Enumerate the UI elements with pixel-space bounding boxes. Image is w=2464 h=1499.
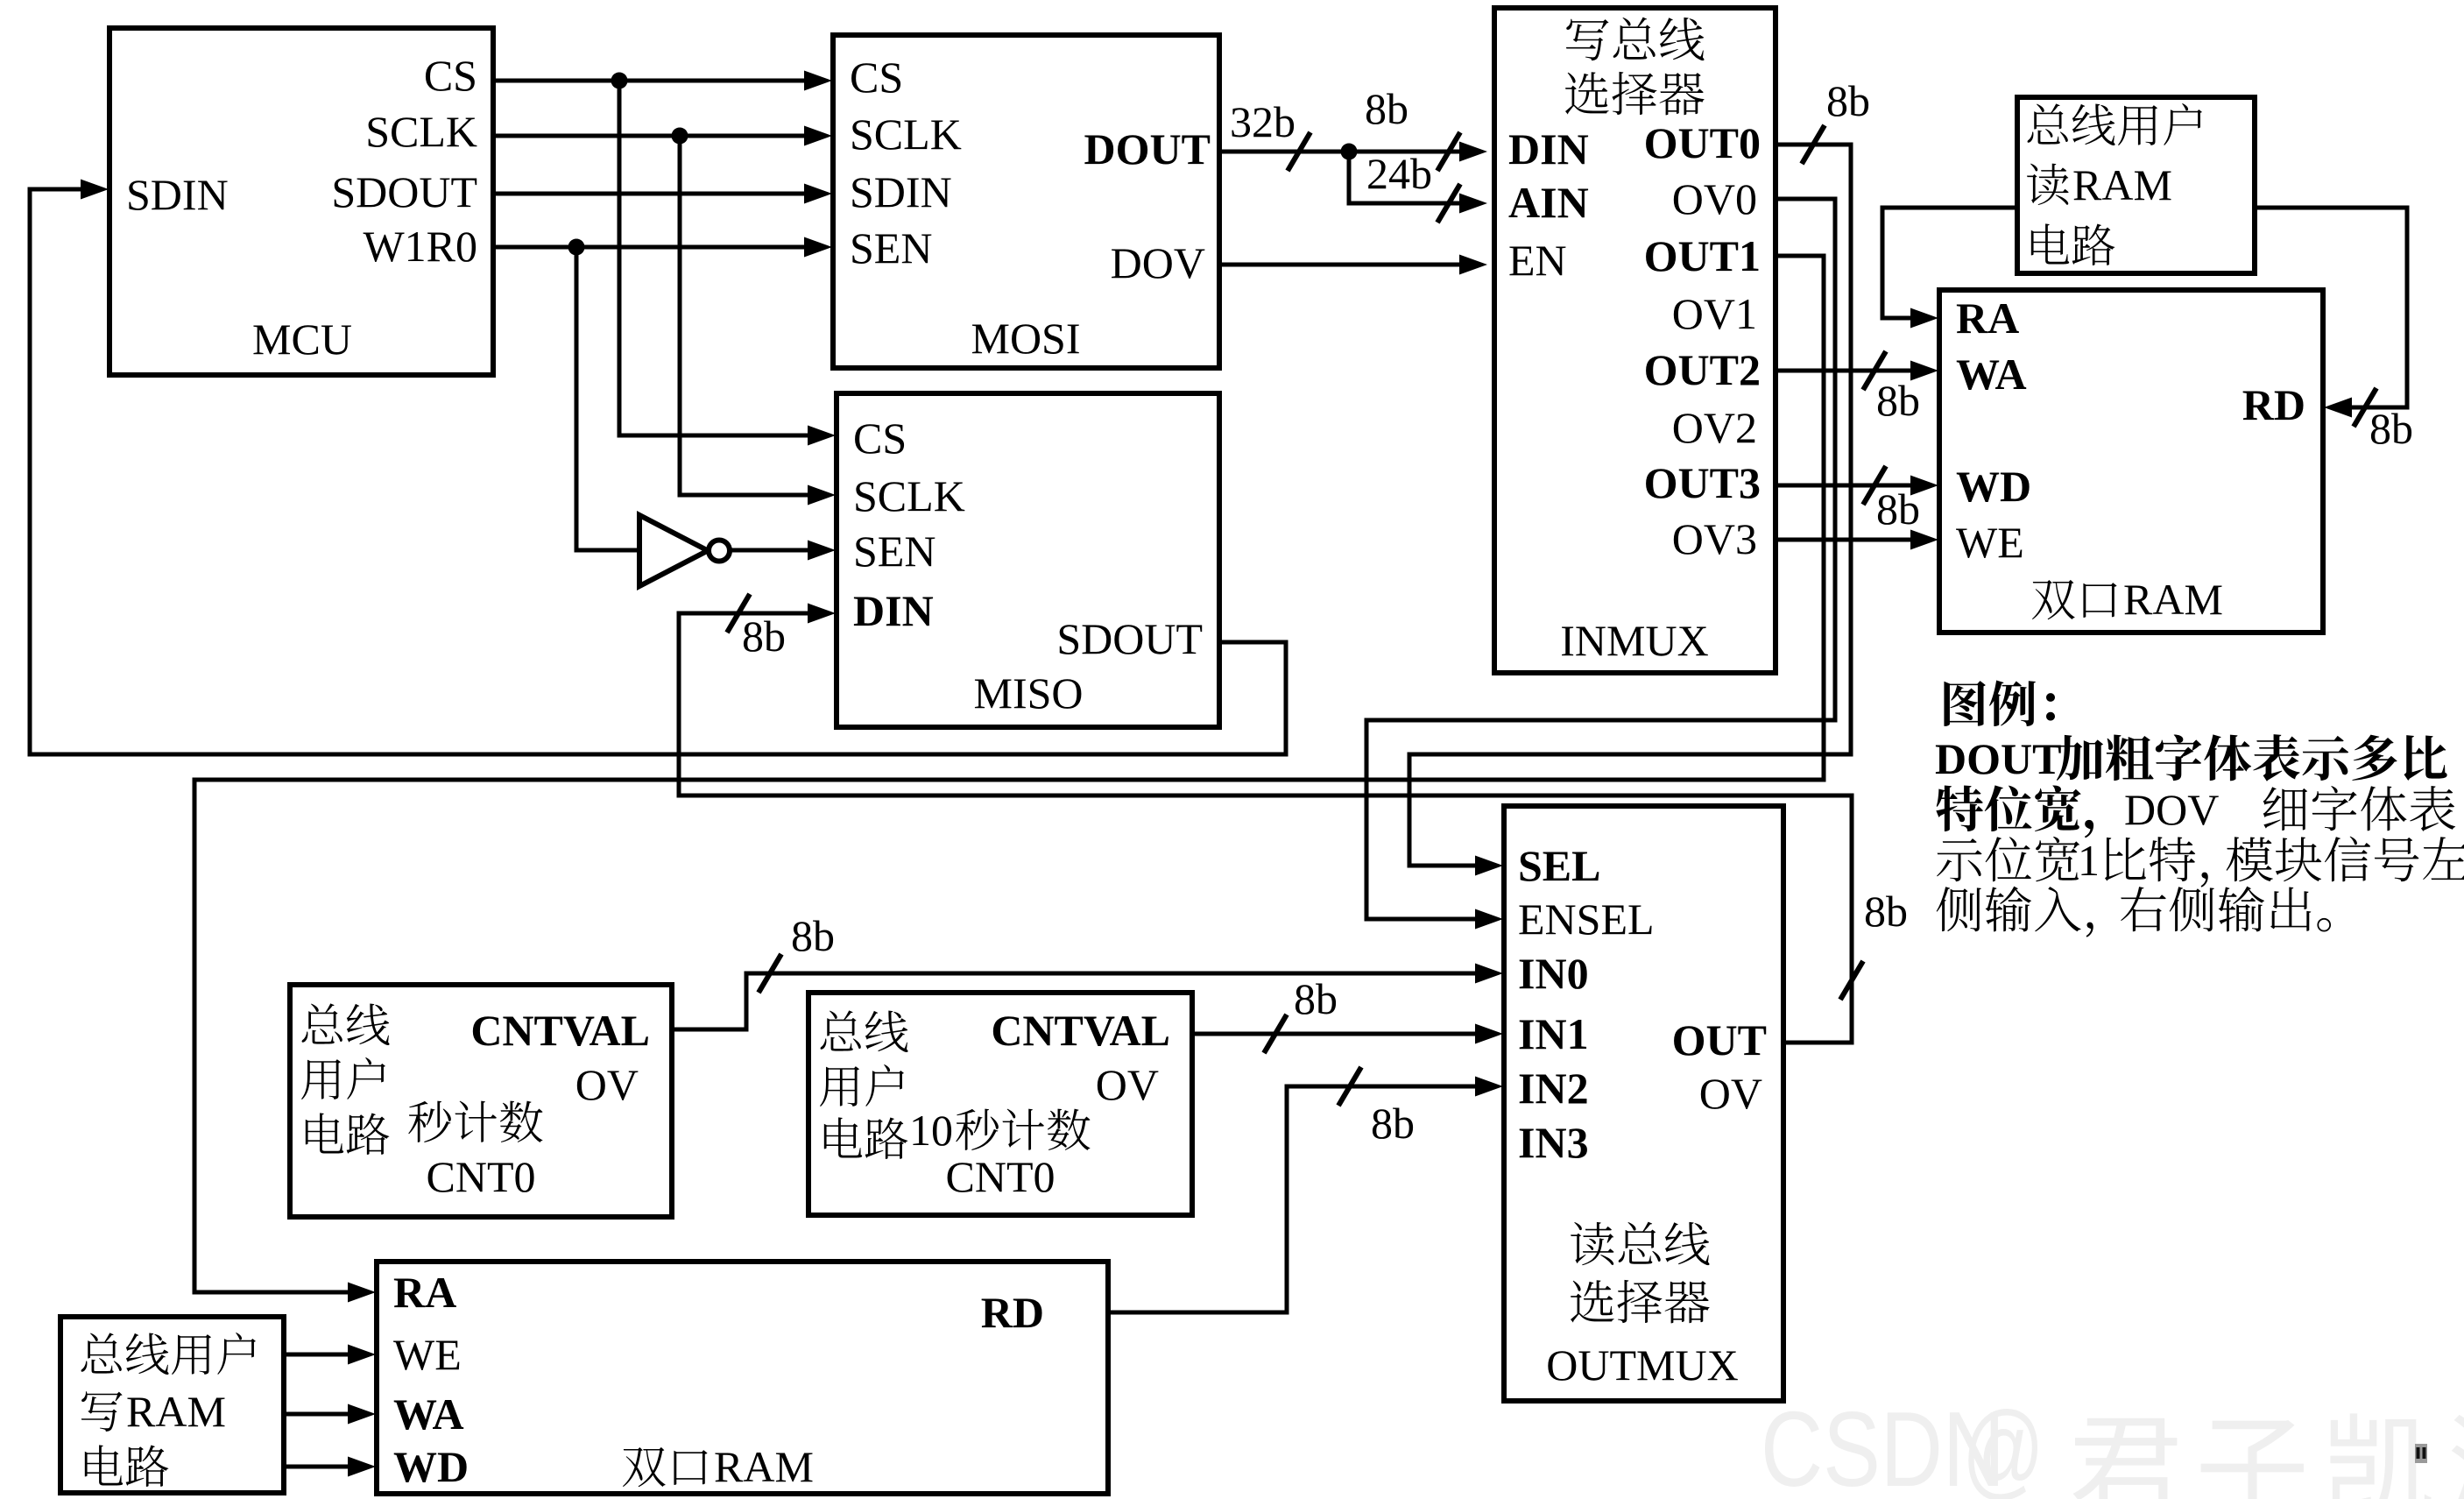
block INMUX (write-bus selector) bbox=[1494, 8, 1776, 673]
wire OV3 to top RAM WE bbox=[1776, 538, 1911, 542]
svg-text:OV1: OV1 bbox=[1672, 289, 1757, 338]
svg-text:OV: OV bbox=[1699, 1069, 1762, 1118]
counter1 text bbox=[301, 1003, 650, 1201]
svg-text:AIN: AIN bbox=[1508, 178, 1589, 227]
svg-text:RAM: RAM bbox=[126, 1387, 226, 1436]
wire write-circuit to bottom RAM WA bbox=[284, 1412, 349, 1417]
wire top RAM RD 8b to read-circuit bbox=[2255, 208, 2407, 407]
block MCU bbox=[109, 28, 493, 375]
svg-text:MISO: MISO bbox=[973, 668, 1083, 718]
svg-text:DOUT: DOUT bbox=[1935, 734, 2061, 783]
svg-text:OUT2: OUT2 bbox=[1644, 345, 1761, 394]
inverter (NOT gate) bbox=[639, 515, 730, 586]
INMUX title 写总线/选择器 bbox=[1565, 18, 1705, 116]
block OUTMUX (read-bus selector) bbox=[1504, 806, 1783, 1401]
wire CS: MCU to MOSI bbox=[493, 79, 806, 83]
OUTMUX title 读总线/选择器/OUTMUX bbox=[1546, 1222, 1738, 1389]
svg-text:OUTMUX: OUTMUX bbox=[1546, 1340, 1738, 1389]
svg-text:OUT1: OUT1 bbox=[1644, 231, 1761, 280]
legend line 2 bbox=[1935, 734, 2447, 783]
svg-text:8b: 8b bbox=[2369, 404, 2413, 453]
svg-text:WA: WA bbox=[1956, 350, 2027, 399]
svg-text:RAM: RAM bbox=[2072, 160, 2172, 209]
svg-text:DOV: DOV bbox=[2124, 785, 2219, 834]
wire OUT1 to bottom RAM RA bbox=[194, 256, 1824, 1292]
counter2 text bbox=[820, 1006, 1170, 1201]
svg-text:CNTVAL: CNTVAL bbox=[991, 1006, 1170, 1055]
wire W1R0 branch to inverter bbox=[576, 247, 638, 550]
svg-text:WA: WA bbox=[393, 1389, 464, 1439]
wire write-circuit to bottom RAM WD bbox=[284, 1465, 349, 1469]
svg-text:DOV: DOV bbox=[1111, 238, 1205, 287]
svg-text:SEN: SEN bbox=[850, 223, 932, 272]
svg-text:SEL: SEL bbox=[1518, 841, 1601, 890]
svg-text:8b: 8b bbox=[1371, 1099, 1415, 1148]
svg-text:@: @ bbox=[1962, 1389, 2044, 1499]
legend title 图例： bbox=[1944, 680, 2055, 726]
svg-text:32b: 32b bbox=[1230, 97, 1296, 146]
svg-text:WD: WD bbox=[393, 1442, 469, 1491]
slash 8b DIN bbox=[1437, 132, 1460, 171]
svg-text:1: 1 bbox=[2078, 836, 2100, 885]
svg-text:MOSI: MOSI bbox=[971, 314, 1080, 363]
slash OUT2 bbox=[1863, 351, 1886, 390]
block counter CNT0 (10-seconds) bbox=[808, 993, 1192, 1215]
wire DOV: MOSI to INMUX EN bbox=[1219, 263, 1459, 267]
svg-text:ENSEL: ENSEL bbox=[1518, 894, 1655, 944]
wire SCLK: MCU to MOSI bbox=[493, 134, 806, 138]
block dual-port RAM (bottom) bbox=[377, 1262, 1108, 1494]
svg-text:WE: WE bbox=[393, 1330, 462, 1379]
wire SCLK branch to MISO SCLK bbox=[680, 136, 809, 495]
svg-text:INMUX: INMUX bbox=[1560, 616, 1708, 665]
wire DOUT 32b: MOSI to INMUX DIN bbox=[1219, 150, 1459, 154]
junction dot CS bbox=[611, 73, 628, 89]
svg-text:OV: OV bbox=[575, 1060, 639, 1109]
legend line 4 bbox=[1937, 836, 2464, 887]
svg-text:8b: 8b bbox=[791, 911, 835, 960]
svg-text:SDOUT: SDOUT bbox=[331, 167, 477, 216]
svg-text:OV0: OV0 bbox=[1672, 174, 1757, 223]
block bus-user read-RAM circuit bbox=[2017, 97, 2255, 273]
svg-text:SCLK: SCLK bbox=[850, 110, 962, 159]
svg-text:WD: WD bbox=[1956, 462, 2031, 511]
MCU pin labels bbox=[126, 51, 477, 364]
wire MISO SDOUT feedback to MCU SDIN bbox=[30, 189, 1286, 754]
slash OUT vertical bbox=[1840, 961, 1863, 1000]
svg-text:RA: RA bbox=[1956, 293, 2019, 343]
wire CNT0(10s) CNTVAL 8b to OUTMUX IN1 bbox=[1192, 1032, 1476, 1036]
svg-text:SEN: SEN bbox=[853, 527, 935, 576]
svg-text:IN0: IN0 bbox=[1518, 949, 1589, 998]
wire W1R0: MCU to MOSI SEN bbox=[493, 245, 806, 250]
svg-text:CS: CS bbox=[424, 51, 477, 100]
block counter CNT0 (seconds) bbox=[290, 985, 672, 1217]
slash DIN horizontal bbox=[727, 594, 750, 633]
svg-text:IN2: IN2 bbox=[1518, 1064, 1589, 1113]
top RAM pin labels bbox=[1956, 293, 2305, 624]
wire OV0 to OUTMUX ENSEL bbox=[1366, 199, 1835, 919]
legend line 5 bbox=[1937, 887, 2331, 937]
wire inverter output to MISO SEN bbox=[730, 548, 809, 553]
svg-text:24b: 24b bbox=[1366, 149, 1432, 198]
svg-text:OV2: OV2 bbox=[1672, 403, 1757, 452]
svg-text:10: 10 bbox=[909, 1106, 953, 1155]
读RAM电路 box text bbox=[2027, 103, 2202, 265]
slash IN0 bbox=[759, 954, 781, 993]
svg-text:RAM: RAM bbox=[714, 1442, 814, 1491]
svg-text:RD: RD bbox=[2242, 380, 2305, 429]
svg-text:OUT3: OUT3 bbox=[1644, 458, 1761, 507]
MISO pin labels bbox=[853, 414, 1203, 718]
wire CNT0 CNTVAL 8b to OUTMUX IN0 bbox=[672, 973, 1476, 1029]
wire AIN 24b branch bbox=[1349, 152, 1459, 203]
svg-text:SDOUT: SDOUT bbox=[1056, 614, 1203, 663]
pause icon bbox=[2415, 1444, 2427, 1463]
写RAM电路 box text bbox=[81, 1333, 256, 1487]
svg-text:EN: EN bbox=[1508, 236, 1567, 285]
wire read-circuit RA to top RAM RA bbox=[1882, 208, 2017, 318]
svg-text:CS: CS bbox=[853, 414, 907, 463]
svg-text:CNT0: CNT0 bbox=[427, 1152, 536, 1201]
svg-text:DIN: DIN bbox=[1508, 124, 1589, 173]
wire bottom RAM RD 8b to OUTMUX IN2 bbox=[1108, 1086, 1476, 1312]
wire OUT0 to OUTMUX SEL bbox=[1409, 145, 1851, 866]
block bus-user write-RAM circuit bbox=[60, 1317, 284, 1493]
svg-text:8b: 8b bbox=[1365, 84, 1409, 133]
svg-text:CS: CS bbox=[850, 53, 903, 102]
svg-text:IN3: IN3 bbox=[1518, 1118, 1589, 1167]
slash OUT0 8b bbox=[1802, 125, 1825, 164]
slash 32b bbox=[1288, 132, 1310, 171]
OUTMUX pin labels bbox=[1518, 841, 1767, 1167]
block MISO bbox=[837, 393, 1219, 727]
bottom RAM pin labels bbox=[393, 1268, 1044, 1491]
svg-text:8b: 8b bbox=[1876, 484, 1920, 534]
block dual-port RAM (top) bbox=[1939, 290, 2323, 633]
svg-text:SDIN: SDIN bbox=[850, 167, 952, 216]
svg-text:OUT0: OUT0 bbox=[1644, 118, 1761, 167]
wire SDOUT: MCU to MOSI SDIN bbox=[493, 192, 806, 196]
svg-text:SCLK: SCLK bbox=[853, 471, 965, 520]
svg-text:SCLK: SCLK bbox=[365, 107, 477, 156]
svg-text:OV3: OV3 bbox=[1672, 514, 1757, 563]
svg-text:WE: WE bbox=[1956, 518, 2024, 567]
slash 24b bbox=[1437, 184, 1460, 223]
junction dot W1R0 bbox=[568, 239, 585, 256]
svg-text:RD: RD bbox=[981, 1288, 1044, 1337]
svg-text:SDIN: SDIN bbox=[126, 170, 229, 219]
svg-text:RAM: RAM bbox=[2123, 575, 2223, 624]
INMUX pin labels bbox=[1508, 118, 1761, 665]
svg-text:RA: RA bbox=[393, 1268, 456, 1317]
MOSI pin labels bbox=[850, 53, 1211, 363]
svg-text:MCU: MCU bbox=[252, 315, 352, 364]
svg-text:OV: OV bbox=[1096, 1060, 1159, 1109]
junction dot SCLK bbox=[672, 128, 688, 145]
slash IN1 bbox=[1264, 1015, 1287, 1053]
slash RD bbox=[2354, 388, 2376, 427]
legend line 3 bbox=[1936, 785, 2455, 838]
svg-text:OUT: OUT bbox=[1672, 1015, 1767, 1064]
svg-text:8b: 8b bbox=[742, 612, 786, 661]
wire OUTMUX OUT 8b to MISO DIN bbox=[679, 613, 1852, 1043]
svg-text:8b: 8b bbox=[1864, 887, 1908, 936]
svg-text:DOUT: DOUT bbox=[1084, 124, 1211, 173]
svg-text:8b: 8b bbox=[1294, 974, 1338, 1023]
wire write-circuit to bottom RAM WE bbox=[284, 1353, 349, 1357]
junction dot DOUT bbox=[1341, 144, 1358, 160]
svg-text:IN1: IN1 bbox=[1518, 1009, 1589, 1058]
svg-text:8b: 8b bbox=[1876, 376, 1920, 425]
svg-text:W1R0: W1R0 bbox=[363, 222, 477, 271]
slash IN2 bbox=[1338, 1067, 1361, 1106]
watermark CSDN bbox=[1761, 1389, 2464, 1499]
wire OUT3 8b to top RAM WD bbox=[1776, 484, 1911, 488]
svg-text:DIN: DIN bbox=[853, 586, 934, 635]
wire OUT2 8b to top RAM WA bbox=[1776, 369, 1911, 373]
block MOSI bbox=[833, 35, 1219, 368]
wire CS branch to MISO CS bbox=[619, 81, 809, 435]
svg-text:8b: 8b bbox=[1826, 76, 1870, 125]
svg-text:CNTVAL: CNTVAL bbox=[470, 1006, 650, 1055]
slash OUT3 bbox=[1863, 466, 1886, 505]
svg-text:CNT0: CNT0 bbox=[946, 1152, 1055, 1201]
